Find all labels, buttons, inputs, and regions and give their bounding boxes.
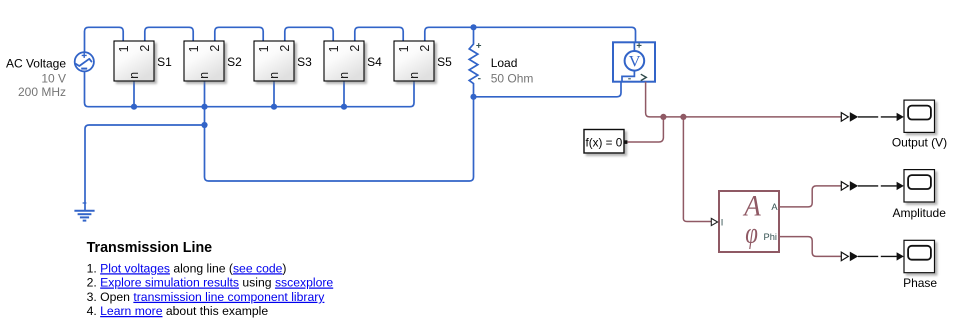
svg-text:4. Learn more about this examp: 4. Learn more about this example: [87, 304, 269, 318]
svg-text:S5: S5: [437, 55, 452, 69]
svg-text:2. Explore simulation results: 2. Explore simulation results using ssce…: [87, 276, 334, 290]
svg-text:S1: S1: [157, 55, 172, 69]
svg-text:S2: S2: [227, 55, 242, 69]
svg-text:V: V: [629, 52, 641, 71]
svg-text:Load: Load: [491, 56, 518, 70]
svg-text:2: 2: [138, 45, 152, 52]
svg-text:u: u: [128, 72, 142, 79]
svg-text:Amplitude: Amplitude: [893, 206, 947, 220]
svg-text:Output (V): Output (V): [892, 136, 947, 150]
svg-text:Phi: Phi: [764, 232, 777, 242]
svg-text:S4: S4: [367, 55, 382, 69]
svg-text:3. Open transmission line comp: 3. Open transmission line component libr…: [87, 290, 326, 304]
svg-text:A: A: [771, 202, 778, 212]
svg-text:φ: φ: [745, 216, 758, 250]
svg-text:S3: S3: [297, 55, 312, 69]
svg-text:Phase: Phase: [903, 276, 937, 290]
svg-text:I: I: [721, 218, 724, 228]
svg-text:AC Voltage: AC Voltage: [6, 57, 66, 71]
svg-text:f(x) = 0: f(x) = 0: [586, 136, 623, 149]
svg-text:1. Plot voltages along line (s: 1. Plot voltages along line (see code): [87, 261, 287, 275]
svg-text:Transmission Line: Transmission Line: [87, 240, 213, 256]
svg-text:200 MHz: 200 MHz: [18, 85, 66, 99]
svg-text:1: 1: [117, 45, 131, 52]
svg-text:10 V: 10 V: [41, 71, 66, 85]
svg-text:50 Ohm: 50 Ohm: [491, 71, 534, 85]
